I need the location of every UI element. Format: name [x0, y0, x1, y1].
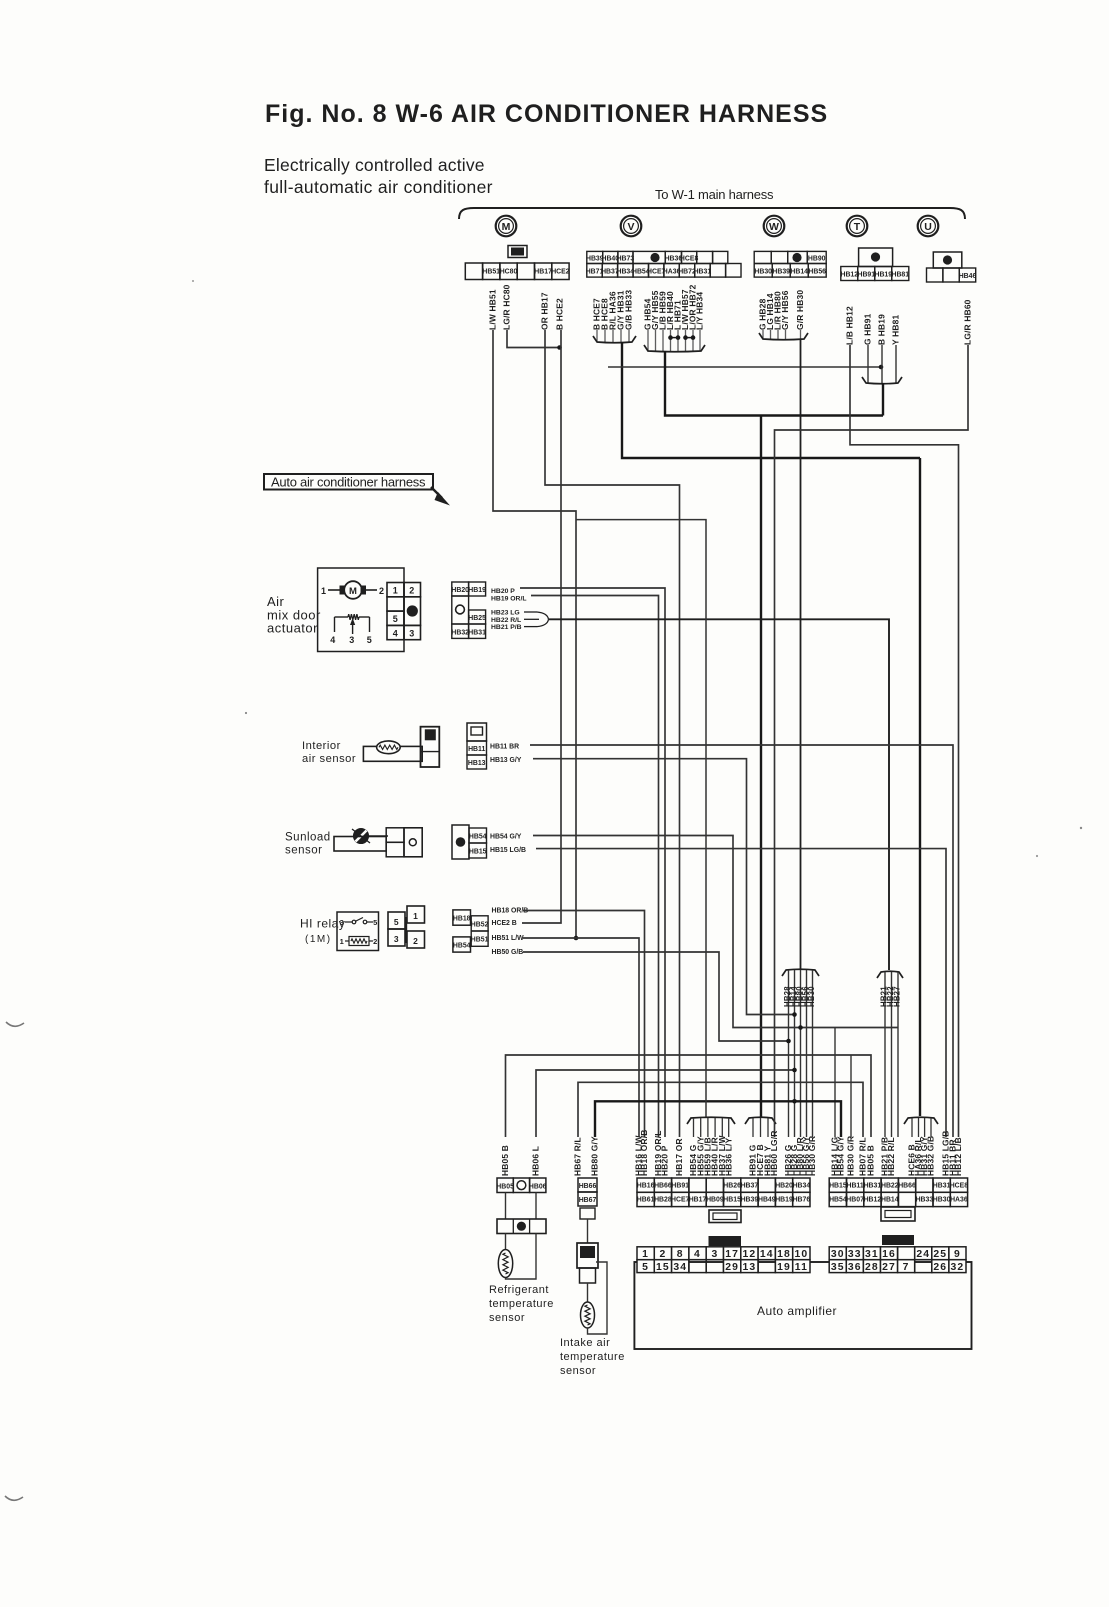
svg-text:HB30 G/R: HB30 G/R — [846, 1136, 856, 1176]
callout box Auto air conditioner harness — [264, 474, 433, 490]
svg-text:14: 14 — [760, 1249, 774, 1260]
svg-text:HI relay: HI relay — [300, 917, 345, 931]
svg-text:2: 2 — [379, 586, 385, 596]
svg-text:HB07: HB07 — [846, 1197, 864, 1204]
svg-text:32: 32 — [951, 1262, 965, 1273]
svg-text:HB06: HB06 — [529, 1184, 547, 1191]
svg-text:HB23 LG: HB23 LG — [491, 610, 520, 617]
refrigerant thermistor element — [505, 1234, 507, 1251]
connector letter V — [621, 216, 642, 237]
svg-text:G/B HB33: G/B HB33 — [624, 290, 634, 330]
svg-text:HB26: HB26 — [723, 1182, 741, 1189]
wire trunk down at x761 — [760, 416, 762, 1119]
gather bracket T group — [862, 377, 902, 384]
svg-text:HB19: HB19 — [874, 272, 892, 279]
svg-text:HB12: HB12 — [864, 1197, 882, 1204]
svg-text:HB13 G/Y: HB13 G/Y — [490, 757, 522, 764]
svg-text:HB11: HB11 — [846, 1182, 863, 1189]
svg-text:HB39: HB39 — [772, 269, 790, 276]
svg-text:HB11: HB11 — [468, 746, 485, 753]
svg-text:HA36: HA36 — [950, 1197, 968, 1204]
bracket to W-1 main harness — [459, 208, 965, 219]
svg-text:HB31: HB31 — [694, 269, 712, 276]
svg-text:HB06 L: HB06 L — [531, 1146, 541, 1176]
svg-text:34: 34 — [673, 1262, 687, 1273]
stub to HB30 label — [850, 1055, 852, 1137]
wire V group 1 branch to T — [608, 366, 881, 368]
svg-text:3: 3 — [349, 635, 355, 645]
amplifier pin row left bottom — [637, 1260, 654, 1273]
wire HB19 OR/L — [531, 596, 659, 1138]
svg-text:HB19: HB19 — [468, 587, 486, 594]
potentiometer (position feedback) — [335, 616, 349, 618]
svg-text:HB81: HB81 — [891, 272, 909, 279]
connector letter M — [496, 216, 517, 237]
svg-text:HB11 BR: HB11 BR — [490, 744, 519, 751]
wire HB15 LG/B — [536, 849, 946, 1137]
svg-text:HB91: HB91 — [857, 272, 875, 279]
svg-text:27: 27 — [882, 1262, 896, 1273]
wire HB67 R/L — [578, 1082, 863, 1137]
svg-text:HCE2: HCE2 — [551, 269, 570, 276]
svg-text:2: 2 — [659, 1249, 666, 1260]
amplifier pin row right top — [829, 1247, 846, 1260]
svg-text:Auto air conditioner harness: Auto air conditioner harness — [271, 475, 426, 490]
svg-text:36: 36 — [848, 1262, 862, 1273]
sunload sensor photo symbol — [354, 829, 369, 844]
svg-text:HB30: HB30 — [933, 1197, 951, 1204]
svg-text:26: 26 — [933, 1262, 947, 1273]
wire HB13 G/Y — [533, 759, 795, 1015]
wire W trunk down — [800, 339, 802, 970]
svg-text:HB20: HB20 — [451, 587, 469, 594]
interior air sensor thermistor symbol — [363, 746, 422, 761]
svg-text:HB30 G/R: HB30 G/R — [807, 1136, 817, 1176]
svg-text:V: V — [627, 221, 634, 233]
svg-text:air sensor: air sensor — [302, 753, 356, 765]
svg-text:5: 5 — [393, 614, 399, 624]
svg-text:HCE8: HCE8 — [950, 1182, 969, 1189]
svg-text:(1M): (1M) — [305, 934, 332, 945]
svg-text:Electrically controlled active: Electrically controlled active — [264, 155, 485, 175]
connector U block — [933, 252, 962, 268]
svg-text:B HB19: B HB19 — [877, 314, 887, 345]
svg-text:actuator: actuator — [267, 621, 318, 636]
links block to connector — [505, 1193, 507, 1220]
svg-text:HB54: HB54 — [829, 1197, 847, 1204]
gather bracket W group — [759, 333, 808, 340]
fan bracket W bundle — [782, 969, 819, 976]
svg-text:HB15: HB15 — [723, 1197, 741, 1204]
svg-text:HB66: HB66 — [898, 1182, 916, 1189]
wire LG/R HB60 from U — [775, 345, 969, 1137]
air mix door connector pin grid — [387, 583, 404, 597]
svg-text:HB54 G/Y: HB54 G/Y — [836, 1136, 846, 1176]
wire V group 2 trunk — [665, 351, 883, 416]
svg-text:HB17: HB17 — [689, 1197, 707, 1204]
svg-text:HB51 L/W: HB51 L/W — [492, 935, 525, 942]
wire stubs W group — [762, 330, 764, 339]
bottom-right harness block row 1 — [829, 1178, 846, 1192]
svg-text:HB39: HB39 — [741, 1197, 759, 1204]
connector letter W — [764, 216, 785, 237]
wire LG/R HC80 from M — [507, 330, 561, 348]
svg-text:3: 3 — [340, 918, 345, 927]
svg-text:HB25: HB25 — [468, 615, 486, 622]
svg-text:HB15 LG/B: HB15 LG/B — [490, 847, 526, 854]
svg-text:HB27: HB27 — [892, 986, 901, 1007]
svg-text:HB16: HB16 — [637, 1182, 655, 1189]
svg-text:HB12 L/B: HB12 L/B — [953, 1137, 963, 1176]
svg-text:HB51: HB51 — [482, 269, 500, 276]
svg-text:HB90: HB90 — [808, 256, 826, 263]
intake sensor connector — [577, 1243, 598, 1268]
svg-text:25: 25 — [933, 1249, 947, 1260]
svg-text:L/B HB12: L/B HB12 — [845, 306, 855, 345]
svg-text:L/Y HB34: L/Y HB34 — [695, 292, 705, 330]
svg-text:HB19: HB19 — [775, 1197, 793, 1204]
intake sensor harness block — [578, 1178, 597, 1192]
svg-text:sensor: sensor — [285, 845, 323, 857]
wire stubs V group 2 — [647, 330, 649, 351]
connector V block — [587, 251, 603, 263]
svg-text:28: 28 — [865, 1262, 879, 1273]
amplifier connector nose left — [709, 1210, 741, 1223]
wire V group 1 trunk — [622, 342, 920, 458]
svg-text:HB34: HB34 — [793, 1182, 811, 1189]
connector T block — [859, 248, 893, 267]
svg-text:HB60 LG/R: HB60 LG/R — [769, 1130, 779, 1176]
svg-text:B HCE2: B HCE2 — [555, 298, 565, 330]
interior air sensor connector — [421, 727, 440, 767]
svg-text:G/Y HB56: G/Y HB56 — [780, 290, 790, 330]
callout arrow — [431, 487, 442, 498]
svg-text:LG/R HB60: LG/R HB60 — [963, 299, 973, 345]
svg-text:M: M — [502, 221, 511, 233]
svg-text:9: 9 — [954, 1249, 961, 1260]
svg-text:HB49: HB49 — [758, 1197, 776, 1204]
svg-text:HCE2 B: HCE2 B — [492, 920, 517, 927]
HI relay harness block — [453, 910, 471, 925]
wire trunk to 6-wire bundle — [576, 520, 706, 1118]
bottom-right harness block row 2 — [829, 1192, 846, 1206]
wire HB54 G/Y — [533, 836, 898, 1028]
sunload sensor connector — [386, 828, 404, 843]
junction V1 branch at T wire — [879, 365, 884, 370]
wire HB51 L/W to bottom — [523, 938, 639, 1137]
svg-text:temperature: temperature — [489, 1298, 554, 1310]
junction HB50 at bundle — [786, 1039, 791, 1044]
brace gathering HB23 HB22 HB21 — [524, 611, 537, 613]
svg-text:HC80: HC80 — [500, 269, 518, 276]
gather bracket V group 2 — [644, 345, 705, 352]
svg-text:HB18: HB18 — [453, 916, 471, 923]
svg-text:2: 2 — [409, 586, 415, 596]
svg-text:HB22 R/L: HB22 R/L — [886, 1137, 896, 1176]
svg-text:To W-1 main harness: To W-1 main harness — [655, 187, 774, 202]
svg-text:HB20: HB20 — [775, 1182, 793, 1189]
svg-text:HB67: HB67 — [579, 1197, 597, 1204]
svg-text:HB17 OR: HB17 OR — [674, 1138, 684, 1176]
svg-text:temperature: temperature — [560, 1351, 625, 1363]
svg-text:HB76: HB76 — [793, 1197, 811, 1204]
link to intake connector — [587, 1219, 589, 1243]
svg-text:HB17: HB17 — [534, 269, 552, 276]
gather bracket V group 1 — [593, 336, 636, 343]
HI relay box — [337, 912, 379, 951]
svg-text:HB54: HB54 — [469, 834, 487, 841]
svg-text:HB33: HB33 — [916, 1197, 934, 1204]
svg-text:L/W HB51: L/W HB51 — [488, 289, 498, 330]
svg-text:HB37: HB37 — [741, 1182, 759, 1189]
svg-text:5: 5 — [394, 917, 399, 927]
wire V group 1 down right side — [919, 458, 921, 1116]
svg-text:HB30: HB30 — [754, 269, 772, 276]
svg-text:HB80 G/Y: HB80 G/Y — [590, 1136, 600, 1176]
wire HB80 G/Y thick — [595, 1101, 841, 1137]
svg-text:29: 29 — [725, 1262, 739, 1273]
svg-text:HB54: HB54 — [453, 943, 471, 950]
svg-text:HB05 B: HB05 B — [500, 1145, 510, 1176]
junction at bundle on HB80 run — [792, 1099, 797, 1104]
svg-text:HB18 OR/B: HB18 OR/B — [492, 907, 529, 914]
svg-text:7: 7 — [903, 1262, 910, 1273]
svg-text:HB32: HB32 — [451, 629, 469, 636]
svg-text:4: 4 — [393, 628, 399, 638]
svg-text:10: 10 — [795, 1249, 809, 1260]
svg-text:5: 5 — [367, 635, 373, 645]
wire T trunk — [882, 383, 884, 416]
air mix door actuator box — [318, 568, 404, 652]
svg-text:HB54 G/Y: HB54 G/Y — [490, 834, 522, 841]
junction HB54 at bundle — [798, 1025, 803, 1030]
wire stubs T group — [867, 345, 869, 383]
svg-text:HB18 OR/B: HB18 OR/B — [639, 1130, 649, 1176]
amplifier pin row left top — [637, 1247, 654, 1260]
svg-text:G/R HB30: G/R HB30 — [795, 290, 805, 330]
svg-text:11: 11 — [795, 1262, 808, 1273]
intake sensor loop wire — [588, 1262, 608, 1334]
svg-text:HB66: HB66 — [579, 1183, 597, 1190]
svg-text:15: 15 — [656, 1262, 670, 1273]
svg-text:HB61: HB61 — [637, 1197, 655, 1204]
svg-text:HB31: HB31 — [933, 1182, 951, 1189]
svg-text:HB31: HB31 — [864, 1182, 882, 1189]
junction pair dots on V group 2 — [668, 335, 673, 340]
intake thermistor element — [587, 1284, 589, 1302]
svg-text:3: 3 — [409, 628, 415, 638]
svg-text:Interior: Interior — [302, 740, 341, 752]
svg-text:M: M — [349, 586, 357, 597]
wire B HCE2 from M to HI relay — [522, 330, 561, 923]
svg-text:31: 31 — [865, 1249, 879, 1260]
svg-text:Sunload: Sunload — [285, 832, 331, 844]
svg-text:HB20 P: HB20 P — [660, 1145, 670, 1176]
svg-text:HCE7: HCE7 — [671, 1197, 690, 1204]
fan bracket HB54..HB36 bundle — [687, 1117, 735, 1124]
svg-text:HB05 B: HB05 B — [866, 1145, 876, 1176]
wire stubs V group 1 — [596, 330, 598, 342]
svg-text:HB31: HB31 — [468, 629, 486, 636]
svg-text:3: 3 — [394, 934, 399, 944]
svg-text:35: 35 — [831, 1262, 845, 1273]
fan bracket to HB91 HCE7 HB81 — [745, 1117, 776, 1124]
connector letter T — [847, 216, 868, 237]
svg-text:HB09: HB09 — [706, 1197, 724, 1204]
svg-text:13: 13 — [743, 1262, 757, 1273]
wire L/W HB51 from M — [493, 330, 576, 938]
svg-text:24: 24 — [916, 1249, 930, 1260]
svg-text:4: 4 — [694, 1249, 701, 1260]
auto amplifier box — [634, 1262, 971, 1349]
svg-text:HB15: HB15 — [829, 1182, 847, 1189]
svg-text:HB50 G/B: HB50 G/B — [492, 949, 524, 956]
svg-text:30: 30 — [831, 1249, 845, 1260]
wire HB20 P — [520, 588, 665, 1137]
svg-text:HB15: HB15 — [469, 849, 487, 856]
svg-text:19: 19 — [777, 1262, 791, 1273]
stub to HB14 label — [834, 1028, 836, 1138]
svg-text:HB67 R/L: HB67 R/L — [573, 1137, 583, 1176]
svg-text:Auto amplifier: Auto amplifier — [757, 1304, 837, 1318]
scan mark left margin 2 — [5, 1496, 23, 1500]
svg-text:OR HB17: OR HB17 — [540, 292, 550, 330]
scan mark left margin 1 — [6, 1022, 24, 1026]
svg-text:sensor: sensor — [489, 1312, 525, 1324]
svg-text:16: 16 — [882, 1249, 896, 1260]
svg-text:HB30: HB30 — [807, 986, 816, 1007]
svg-text:HB91: HB91 — [671, 1182, 689, 1189]
svg-text:U: U — [924, 221, 932, 233]
wires W bundle down to bottom connector — [788, 970, 790, 1137]
junction HB13 at bundle — [792, 1012, 797, 1017]
wire HB18 OR/B — [523, 911, 645, 1138]
svg-text:33: 33 — [848, 1249, 862, 1260]
air mix door harness connector block — [452, 582, 469, 596]
svg-text:1: 1 — [393, 586, 399, 596]
svg-text:HB46: HB46 — [959, 273, 977, 280]
wire HB50 G/B — [523, 952, 789, 1041]
amplifier connector nose right — [881, 1207, 915, 1221]
amplifier pin row right bottom — [829, 1260, 846, 1273]
svg-text:HB20 P: HB20 P — [491, 588, 515, 595]
fan bracket HB21 HB22 group — [877, 971, 903, 978]
svg-text:8: 8 — [677, 1249, 684, 1260]
HI relay connector pins — [388, 912, 405, 929]
svg-text:1: 1 — [642, 1249, 649, 1260]
svg-text:HB73: HB73 — [617, 256, 635, 263]
svg-text:Fig. No. 8 W-6 AIR CONDITIONER: Fig. No. 8 W-6 AIR CONDITIONER HARNESS — [265, 100, 828, 128]
sunload sensor harness block — [452, 825, 469, 859]
wire HB06 L — [536, 1070, 795, 1137]
wire OR HB17 from M — [545, 330, 680, 1137]
svg-text:HB22 R/L: HB22 R/L — [491, 617, 521, 624]
svg-text:18: 18 — [777, 1249, 791, 1260]
svg-text:5: 5 — [373, 918, 378, 927]
fan bracket to HCE6..HB32 — [904, 1117, 938, 1124]
svg-text:1: 1 — [340, 937, 345, 946]
refrigerant sensor connector — [497, 1219, 546, 1234]
connector M block — [508, 246, 527, 258]
interior air sensor harness block — [467, 723, 487, 741]
connector letter U — [918, 216, 939, 237]
svg-text:HB12: HB12 — [840, 272, 858, 279]
svg-text:1: 1 — [413, 911, 418, 921]
svg-text:2: 2 — [373, 937, 378, 946]
wire HB23/HB22/HB21 trunk — [549, 619, 889, 970]
svg-text:G HB91: G HB91 — [863, 313, 873, 345]
svg-text:HB14: HB14 — [790, 269, 808, 276]
svg-text:HB28: HB28 — [654, 1197, 672, 1204]
svg-text:HB51: HB51 — [471, 937, 489, 944]
svg-text:5: 5 — [642, 1262, 649, 1273]
svg-text:12: 12 — [743, 1249, 757, 1260]
svg-text:HB13: HB13 — [468, 760, 486, 767]
wire HB05 B — [506, 1055, 872, 1137]
svg-text:HCE8: HCE8 — [680, 256, 699, 263]
svg-text:HB66: HB66 — [654, 1182, 672, 1189]
wire HB11 BR — [530, 745, 953, 1137]
svg-text:HB19 OR/L: HB19 OR/L — [491, 596, 527, 603]
svg-text:1: 1 — [321, 586, 327, 596]
svg-text:HB56: HB56 — [808, 269, 826, 276]
svg-text:3: 3 — [711, 1249, 718, 1260]
junction HB06 at bundle — [792, 1068, 797, 1073]
svg-text:Y HB81: Y HB81 — [891, 314, 901, 345]
svg-text:HB05: HB05 — [496, 1184, 514, 1191]
svg-text:4: 4 — [330, 635, 336, 645]
svg-text:HB52: HB52 — [471, 921, 489, 928]
svg-text:sensor: sensor — [560, 1365, 596, 1377]
svg-text:full-automatic air conditioner: full-automatic air conditioner — [264, 177, 493, 197]
svg-text:HB32 G/B: HB32 G/B — [926, 1136, 936, 1176]
bottom-left harness block row 2 — [637, 1192, 654, 1206]
refrigerant sensor harness block — [497, 1178, 513, 1193]
svg-text:17: 17 — [725, 1249, 739, 1260]
svg-text:T: T — [854, 221, 861, 233]
svg-text:HB14: HB14 — [881, 1197, 899, 1204]
svg-text:Intake air: Intake air — [560, 1337, 610, 1349]
junction HB51/relay — [574, 936, 579, 941]
junction HC80/HCE2 — [557, 345, 562, 350]
svg-text:HB22: HB22 — [881, 1182, 899, 1189]
svg-text:HB21 P/B: HB21 P/B — [491, 624, 522, 631]
wire L/B HB12 from T — [850, 345, 959, 1137]
bottom-left harness block row 1 — [637, 1178, 654, 1192]
svg-text:2: 2 — [413, 936, 418, 946]
svg-text:LG/R HC80: LG/R HC80 — [502, 284, 512, 330]
svg-text:Refrigerant: Refrigerant — [489, 1284, 549, 1296]
svg-text:HB36 L/Y: HB36 L/Y — [723, 1137, 733, 1176]
connector W block — [754, 251, 771, 263]
svg-text:W: W — [769, 221, 779, 233]
